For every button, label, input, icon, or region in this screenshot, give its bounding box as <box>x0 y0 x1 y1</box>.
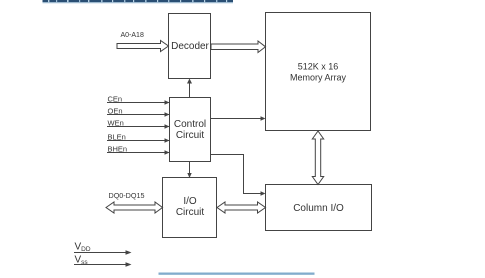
label CEn with wire <box>107 95 170 105</box>
label DQ0-DQ15 <box>109 191 145 200</box>
svg-text:A0-A18: A0-A18 <box>121 32 144 39</box>
svg-text:Control: Control <box>174 119 206 130</box>
svg-text:Decoder: Decoder <box>171 41 209 52</box>
svg-text:Circuit: Circuit <box>176 207 205 218</box>
svg-text:512K x 16: 512K x 16 <box>298 62 339 72</box>
svg-text:I/O: I/O <box>183 196 197 207</box>
svg-text:Memory Array: Memory Array <box>290 73 347 83</box>
decoder block <box>169 14 211 79</box>
wire control to memory <box>211 116 266 120</box>
decoder to memory hollow arrow <box>211 41 266 53</box>
I/O circuit to column I/O double hollow arrow <box>217 202 266 213</box>
label OEn with wire <box>107 107 170 117</box>
svg-text:Column I/O: Column I/O <box>293 203 344 214</box>
data bus double hollow arrow to I/O circuit <box>106 202 163 213</box>
address bus hollow arrow into decoder <box>117 41 169 52</box>
control circuit block <box>170 98 211 162</box>
I/O circuit block <box>163 178 217 238</box>
bottom blue divider line <box>159 273 315 275</box>
label BHEn with wire <box>107 145 170 155</box>
label BLEn with wire <box>107 133 170 143</box>
wire control to I/O circuit (down arrow) <box>187 162 191 178</box>
memory to column I/O vertical double hollow arrow <box>312 131 323 185</box>
wire control to decoder (up arrow) <box>187 79 192 98</box>
column I/O block <box>266 185 372 231</box>
memory array block <box>266 13 371 131</box>
svg-text:DQ0-DQ15: DQ0-DQ15 <box>109 191 145 200</box>
cropped hyperlink text strip (top) <box>43 0 234 3</box>
label VSS with supply wire <box>74 255 132 267</box>
label WEn with wire <box>107 119 170 129</box>
svg-text:VDD: VDD <box>75 242 91 254</box>
svg-text:Circuit: Circuit <box>176 130 205 141</box>
label VDD with supply wire <box>74 242 132 255</box>
label A0-A18 <box>121 32 144 39</box>
wire control to column I/O (right, down, right) <box>211 155 266 196</box>
